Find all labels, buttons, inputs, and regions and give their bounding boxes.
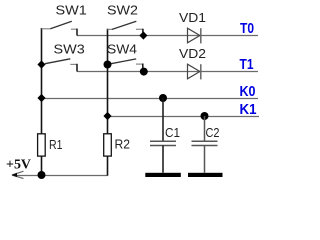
svg-text:VD1: VD1 — [179, 10, 206, 25]
wire K1 horizontal — [108, 116, 260, 118]
wire T1 row horizontal — [77, 71, 258, 73]
junction dot bus1/K0 (diamond) — [37, 94, 45, 102]
svg-text:SW1: SW1 — [56, 2, 87, 17]
junction dot R1/rail (round) — [38, 171, 46, 179]
switch SW1 — [42, 21, 78, 35]
svg-text:VD2: VD2 — [179, 46, 206, 61]
svg-text:C2: C2 — [206, 125, 220, 140]
capacitor C1 — [150, 98, 176, 173]
wire bus1 vertical — [41, 28, 43, 134]
wire R1 bottom lead — [41, 156, 43, 175]
capacitor C2 — [192, 116, 218, 173]
svg-text:K1: K1 — [240, 101, 257, 118]
svg-text:T1: T1 — [240, 56, 254, 73]
switch SW3 — [45, 59, 77, 72]
resistor R2 — [104, 134, 112, 156]
diode VD2 — [188, 64, 201, 79]
junction dot SW4/T1 (round) — [140, 68, 148, 76]
svg-text:R2: R2 — [115, 137, 131, 152]
svg-text:+5V: +5V — [6, 158, 31, 173]
junction dot SW4 pole (round) — [104, 61, 112, 69]
wire T0 row horizontal — [77, 35, 258, 37]
junction dot SW3 pole (diamond) — [37, 60, 45, 68]
svg-text:SW2: SW2 — [107, 2, 138, 17]
resistor R1 — [38, 134, 46, 156]
ground C1 — [145, 173, 181, 177]
wire bus2 vertical — [107, 29, 109, 134]
switch SW4 — [111, 59, 143, 72]
+5V arrow — [12, 171, 24, 178]
svg-text:SW3: SW3 — [54, 41, 85, 56]
junction dot SW2/T0 — [139, 31, 147, 39]
wire +5V rail — [13, 175, 108, 177]
wire K0 horizontal — [42, 98, 259, 100]
wire R2 bottom lead — [107, 156, 109, 176]
svg-text:T0: T0 — [240, 20, 254, 37]
svg-text:R1: R1 — [49, 137, 63, 152]
svg-text:C1: C1 — [165, 125, 180, 140]
diode VD1 — [188, 28, 201, 43]
junction dot K1/C2 (round) — [201, 112, 209, 120]
ground C2 — [188, 173, 223, 177]
junction dot K0/C1 (round) — [159, 94, 167, 102]
junction dot bus2/K1 (diamond) — [103, 112, 111, 120]
switch SW2 — [108, 21, 143, 35]
svg-text:K0: K0 — [240, 83, 256, 100]
svg-text:SW4: SW4 — [107, 41, 137, 56]
